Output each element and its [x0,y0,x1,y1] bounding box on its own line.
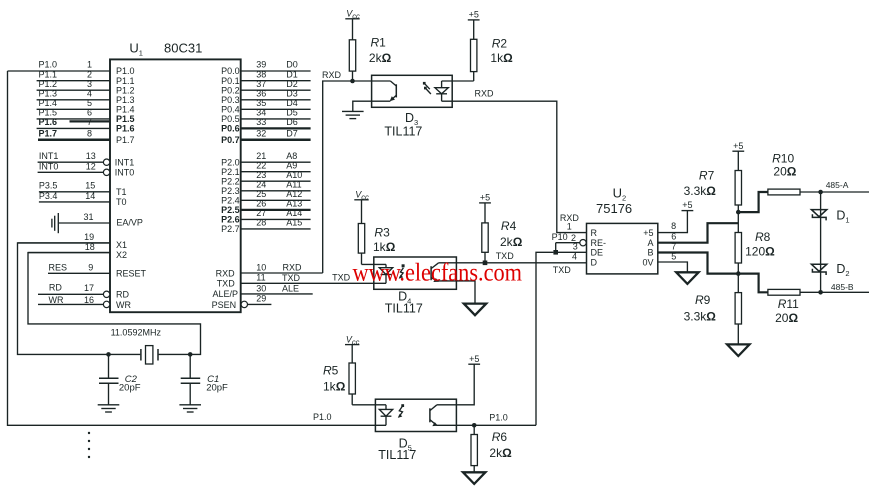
svg-text:11.0592MHz: 11.0592MHz [111,327,162,337]
node A junction [736,210,741,215]
label R5 1k ohm [323,363,346,393]
svg-text:32: 32 [256,128,266,138]
svg-text:P1.6: P1.6 [39,117,58,127]
resistor R1 2k [349,19,355,81]
pin number 3 [573,241,578,251]
svg-text:INT0: INT0 [115,167,135,177]
svg-text:X1: X1 [116,240,127,250]
U1 pin 36 P0.3/D3 wire and labels [221,88,310,105]
svg-text:DE: DE [591,248,604,258]
net label P1.0 (D5 output) [489,413,508,423]
ground (triangle) for D4 emitter [464,304,486,316]
svg-text:P0.2: P0.2 [221,85,240,95]
U1 reference designator U1 [129,41,143,58]
svg-text:1: 1 [87,60,92,70]
crystal Y1 11.0592MHz [141,346,158,364]
svg-text:33: 33 [256,117,266,127]
U1 pin 26 P2.5/A13 wire and labels [221,199,310,216]
U1 pin 13 INT1 wire, bubble and labels [38,151,135,168]
svg-text:5: 5 [671,251,676,261]
U1 pin 37 P0.2/D2 wire and labels [221,79,310,96]
U1 pin 28 P2.7/A15 wire and labels [221,218,310,235]
svg-text:+5: +5 [733,141,743,151]
svg-text:P2.0: P2.0 [221,157,240,167]
svg-text:P1.0: P1.0 [489,413,508,423]
svg-text:X2: X2 [116,250,127,260]
svg-text:RXD: RXD [216,268,236,278]
label D5 TIL117 [378,436,416,462]
U1 pin 30 ALE wire and labels [212,283,312,299]
svg-text:TIL117: TIL117 [384,125,422,139]
optocoupler D5 TIL117 body [375,399,456,431]
svg-text:15: 15 [85,181,95,191]
svg-text:+5: +5 [682,200,692,210]
svg-text:38: 38 [256,69,266,79]
power +5 symbol above R7 [732,141,744,151]
U1 pin 24 P2.3/A11 wire and labels [221,179,310,196]
svg-text:28: 28 [256,218,266,228]
svg-text:RE-: RE- [591,238,607,248]
svg-text:T0: T0 [116,197,127,207]
U2 pin 3 DE wire [556,251,587,253]
U2 pin 6 wire A to node A [658,223,739,243]
U1 pin 11 TXD wire (to optocoupler D4 LED) and labels [217,273,386,289]
power Vcc symbol above R3 [354,190,369,202]
svg-text:R6: R6 [492,430,508,444]
svg-text:3.3kΩ: 3.3kΩ [684,184,717,198]
net label RXD (left of R1) [322,70,342,80]
svg-text:3.3kΩ: 3.3kΩ [684,309,717,323]
svg-text:RES: RES [49,263,68,273]
svg-text:27: 27 [256,208,266,218]
wire R2 bottom to D3 LED anode [442,80,474,82]
net label TXD (D4 output) [496,251,515,261]
optocoupler D4 TIL117 body [374,257,457,289]
pin number 5 [671,251,676,261]
pin number 8 [671,221,676,231]
svg-text:P1.2: P1.2 [39,79,58,89]
D4 light arrow [399,264,405,278]
svg-text:80C31: 80C31 [164,41,202,56]
svg-text:6: 6 [671,232,676,242]
optocoupler D3 TIL117 body [372,75,453,107]
svg-text:WR: WR [49,295,64,305]
svg-text:4: 4 [572,251,577,261]
svg-text:R5: R5 [323,363,339,377]
wire R5 to D5 LED anode [352,404,386,406]
resistor R11 20 (horizontal) [768,289,869,295]
resistor R8 120 between node A and node B [735,212,741,274]
svg-text:1: 1 [567,221,572,231]
node R4/TXD junction (square) [483,261,488,266]
U2 pin 7 wire B to node B [658,253,739,274]
resistor R9 3.3k [735,274,741,345]
svg-text:2kΩ: 2kΩ [500,235,523,249]
svg-text:20Ω: 20Ω [775,311,798,325]
net label RXD (D3 output) [475,89,495,99]
svg-text:U1: U1 [129,41,143,58]
wire X1 to crystal left node [18,243,141,355]
U1 pin 2 P1.1 wire and labels [37,69,135,86]
U1 pin 19 X1 wire and labels [18,232,128,250]
svg-text:D6: D6 [286,117,298,127]
svg-text:P1.0: P1.0 [313,412,332,422]
svg-text:20pF: 20pF [119,383,141,394]
LED of D3 [435,81,448,101]
svg-text:P1.3: P1.3 [39,88,58,98]
svg-text:A15: A15 [286,218,302,228]
svg-text:P0.5: P0.5 [221,114,240,124]
ground (earth) under C1 [179,405,201,412]
label R1 2k ohm [369,35,392,65]
svg-text:31: 31 [83,212,93,222]
svg-text:D1: D1 [836,208,849,224]
U2 internal pin names [591,228,654,268]
watermark www.elecfans.com [353,260,523,287]
svg-text:RXD: RXD [475,89,495,99]
resistor R10 20 (horizontal) [768,189,869,195]
pin number 4 and net label TXD at U2 [553,251,577,275]
power +5 symbol above R2 [468,10,480,20]
svg-text:P10: P10 [552,232,568,242]
svg-text:36: 36 [256,88,266,98]
label R6 2k ohm [489,430,512,460]
svg-text:P0.7: P0.7 [221,135,240,145]
ground (triangle) under R6 [463,472,485,484]
U2 part value 75176 [596,201,632,216]
IC U2 75176 body [587,223,658,274]
svg-text:D1: D1 [286,69,298,79]
LED of D5 [379,405,392,426]
U1 pin 39 P0.0/D0 wire and labels [221,60,310,77]
svg-text:20Ω: 20Ω [773,164,796,178]
svg-text:1kΩ: 1kΩ [323,380,346,394]
svg-text:A8: A8 [286,151,297,161]
U2 pin 1 labels (RXD) [560,213,580,232]
U1 pin 22 P2.1/A9 wire and labels [221,160,310,177]
svg-text:R8: R8 [755,230,771,244]
U1 pin 5 P1.4 wire and labels [37,98,135,115]
U1 pin 17 RD wire, bubble and labels [38,283,129,300]
U1 pin 34 P0.5/D5 wire and labels [221,108,310,125]
svg-text:D2: D2 [286,79,298,89]
svg-text:P0.1: P0.1 [221,76,240,86]
svg-text:17: 17 [84,283,94,293]
svg-text:P1.6: P1.6 [116,124,135,134]
ellipsis dots bottom left [88,432,90,458]
D5 emitter wire to P1.0 node [436,424,536,426]
svg-text:P1.0: P1.0 [39,60,58,70]
svg-text:+5: +5 [643,228,653,238]
svg-text:R4: R4 [501,219,517,233]
wire X2 to crystal right node [28,253,201,355]
net label 485-A [826,180,849,190]
svg-text:A: A [647,238,653,248]
transistor of D3 (phototransistor, faces left) [390,81,397,101]
label R2 1k ohm [490,37,513,65]
wire RXD from U1 pin10 up to R1/D3 node [323,81,391,273]
svg-text:12: 12 [86,161,96,171]
node P10/DE junction (square) [553,250,558,255]
U1 pin 6 P1.5 wire and labels [37,108,135,125]
svg-text:R10: R10 [772,151,794,165]
svg-text:TXD: TXD [217,279,236,289]
diode D1 (zener) [811,210,826,221]
svg-text:14: 14 [85,191,95,201]
wire protection branch 485-A to 485-B [820,192,822,292]
label D3 TIL117 [384,111,422,139]
svg-text:P3.5: P3.5 [39,181,58,191]
svg-text:+5: +5 [480,193,490,203]
node D5 output / R6 junction [472,423,477,428]
U1 pin 29 PSEN wire, bubble and labels [212,294,272,310]
U1 pin 4 P1.3 wire and labels [37,88,135,105]
svg-text:24: 24 [256,179,266,189]
svg-text:PSEN: PSEN [212,300,237,310]
U1 pin 15 P3.5/T1 wire and labels [39,181,127,197]
node crystal-left junction [106,352,111,357]
resistor R3 1k [358,200,364,265]
U1 pin 12 INT0 wire, bubble and labels [38,161,135,177]
svg-text:21: 21 [256,151,266,161]
svg-text:A10: A10 [286,170,302,180]
wire node A to R10 [738,192,768,212]
svg-text:P1.7: P1.7 [39,128,58,138]
label C1 20pF [206,374,228,394]
D3 emitter wire to ground [353,101,391,111]
net label 485-B [831,282,854,292]
svg-text:16: 16 [84,295,94,305]
node 485-A junction [818,190,823,195]
svg-text:RXD: RXD [283,262,303,272]
svg-text:RD: RD [49,283,62,293]
label R9 3.3k ohm [684,293,717,323]
svg-text:11: 11 [256,273,265,283]
svg-text:+5: +5 [469,10,479,20]
svg-text:3: 3 [573,241,578,251]
svg-text:P0.3: P0.3 [221,95,240,105]
resistor R6 2k [471,425,477,472]
node R1/RXD junction [350,79,355,84]
svg-text:D7: D7 [286,128,298,138]
svg-text:D5: D5 [286,108,298,118]
svg-text:ALE: ALE [282,284,299,294]
D4 emitter wire to ground [437,281,475,304]
svg-text:INT1: INT1 [39,151,59,161]
U1 pin 35 P0.4/D4 wire and labels [221,98,310,115]
svg-text:1kΩ: 1kΩ [490,51,513,65]
label D2 [836,262,849,278]
svg-text:1kΩ: 1kΩ [373,240,396,254]
svg-text:5: 5 [87,98,92,108]
label R10 20 ohm [772,151,797,178]
svg-text:TXD: TXD [332,273,351,283]
svg-text:P1.5: P1.5 [116,114,135,124]
svg-text:8: 8 [671,221,676,231]
label R11 20 ohm [775,297,799,325]
svg-text:R3: R3 [374,225,390,239]
svg-text:R: R [591,228,598,238]
label D1 [836,208,849,224]
svg-text:75176: 75176 [596,201,632,216]
U1 pin 7 P1.6 wire and labels [37,117,135,134]
U1 pin 23 P2.2/A10 wire and labels [221,170,310,187]
svg-text:20pF: 20pF [206,383,228,394]
U1 pin 3 P1.2 wire and labels [37,79,135,96]
pin number 7 [671,241,676,251]
U1 pin 31 EA/VP wire and labels [58,212,143,228]
svg-text:P2.4: P2.4 [221,196,240,206]
U2 pin 5 0V wire to ground [658,262,688,272]
label R3 1k ohm [373,225,396,254]
svg-text:D2: D2 [836,262,849,278]
svg-text:P1.7: P1.7 [116,135,135,145]
U1 pin 32 P0.7/D7 wire and labels [221,128,310,145]
svg-text:P1.0: P1.0 [116,66,135,76]
svg-text:P2.1: P2.1 [221,167,240,177]
svg-text:www.elecfans.com: www.elecfans.com [353,260,523,287]
svg-text:P1.4: P1.4 [39,98,58,108]
pin number 6 [671,232,676,242]
U1 pin 27 P2.6/A14 wire and labels [221,208,310,225]
U1 pin 14 P3.4/T0 wire and labels [39,191,127,207]
capacitor C2 20pF [99,354,119,404]
svg-text:D0: D0 [286,60,298,70]
resistor R4 2k [482,203,488,263]
svg-text:TIL117: TIL117 [378,448,416,462]
svg-text:22: 22 [256,160,266,170]
transistor of D4 (phototransistor, faces right) [431,263,439,282]
power +5 symbol at U2 pin 8 [682,200,694,210]
svg-text:35: 35 [256,98,266,108]
svg-text:23: 23 [256,170,266,180]
svg-text:34: 34 [256,108,266,118]
svg-text:A12: A12 [286,189,302,199]
net label P1.0 (bottom wire) [313,412,332,422]
svg-text:D: D [591,258,598,268]
U1 pin 8 P1.7 wire and labels [38,128,135,145]
svg-text:P1.4: P1.4 [116,105,135,115]
wire node B to R11 [738,274,768,293]
value label 11.0592MHz [111,327,162,337]
svg-text:26: 26 [256,199,266,209]
svg-text:13: 13 [86,151,96,161]
transistor of D5 (phototransistor, faces right) [430,405,438,426]
diode D2 (zener) [811,264,826,275]
U1 pin 21 P2.0/A8 wire and labels [221,151,310,168]
svg-text:P2.6: P2.6 [221,215,240,225]
svg-text:+5: +5 [469,354,479,364]
svg-text:7: 7 [671,241,676,251]
svg-text:TXD: TXD [553,265,572,275]
svg-text:ALE/P: ALE/P [212,289,238,299]
U1 pin 10 RXD wire and labels [216,262,323,278]
svg-text:P0.6: P0.6 [221,124,240,134]
svg-text:37: 37 [256,79,266,89]
svg-text:R11: R11 [778,297,799,311]
svg-text:P2.7: P2.7 [221,224,240,234]
svg-text:485-A: 485-A [826,180,849,190]
svg-text:120Ω: 120Ω [745,245,775,259]
power +5 symbol above D5 transistor [468,354,480,364]
label R8 120 ohm [745,230,775,259]
wire P1.0 bus from U1 pin1 down left side to optocoupler D5 [8,71,387,425]
svg-text:P2.3: P2.3 [221,186,240,196]
svg-text:P1.1: P1.1 [116,76,135,86]
svg-text:INT0: INT0 [39,161,59,171]
IC U1 80C31 body [110,59,241,312]
D5 light arrow (bolt) [398,404,404,418]
svg-text:RXD: RXD [322,70,342,80]
svg-text:EA/VP: EA/VP [116,218,143,228]
svg-text:WR: WR [116,300,131,310]
wire P1.0 from D5 output up to U2 RE-/DE [536,252,553,425]
label C2 20pF [119,374,141,394]
wire TXD from D4 collector to U2 pin 4 (D) [439,262,587,264]
ground (sideways earth) on EA/VP [52,213,58,233]
svg-text:P0.4: P0.4 [221,105,240,115]
wire R3 to D4 LED anode [362,263,387,265]
svg-text:25: 25 [256,189,266,199]
ground (triangle) at U2 pin 5 [676,272,698,284]
U1 pin 9 RESET wire and labels [48,263,147,279]
node B junction [736,271,741,276]
resistor R2 1k [471,20,477,81]
label R7 3.3k ohm [684,168,717,198]
label D4 TIL117 [385,289,423,315]
svg-text:P2.5: P2.5 [221,205,240,215]
svg-text:A9: A9 [286,160,297,170]
svg-text:485-B: 485-B [831,282,854,292]
svg-text:T1: T1 [116,187,127,197]
svg-text:RESET: RESET [116,269,147,279]
svg-text:P1.1: P1.1 [39,69,58,79]
capacitor C1 20pF [181,354,201,404]
ground (triangle) under R9 [727,344,749,356]
node 485-B junction [818,290,823,295]
U2 pin 2 RE- bubble and wire [556,240,587,253]
power Vcc symbol above R1 [345,9,360,21]
net label TXD (at D4 LED input) [332,273,351,283]
svg-text:39: 39 [256,60,266,70]
resistor R7 3.3k [735,151,741,212]
svg-text:R7: R7 [699,168,715,182]
ground (earth) for D3 emitter [342,111,364,118]
svg-text:TIL117: TIL117 [385,301,423,315]
U1 pin 18 X2 wire and labels [28,242,127,260]
svg-text:2kΩ: 2kΩ [369,51,392,65]
svg-text:30: 30 [256,283,266,293]
svg-text:INT1: INT1 [115,157,135,167]
LED of D4 [379,264,392,283]
U1 pin 33 P0.6/D6 wire and labels [221,117,310,134]
svg-text:2: 2 [87,69,92,79]
label R4 2k ohm [500,219,523,249]
wire RXD from D3 LED cathode to U2 pin1 [442,101,587,232]
svg-text:B: B [647,248,653,258]
svg-text:29: 29 [256,294,266,304]
svg-text:6: 6 [87,108,92,118]
svg-text:TXD: TXD [282,273,301,283]
svg-text:R9: R9 [695,293,711,307]
svg-text:P1.3: P1.3 [116,95,135,105]
svg-text:3: 3 [87,79,92,89]
wire +5 to D5 collector [437,364,474,405]
svg-text:8: 8 [87,128,92,138]
ground (earth) under C2 [98,405,120,412]
svg-text:9: 9 [88,263,93,273]
svg-text:D4: D4 [286,98,298,108]
